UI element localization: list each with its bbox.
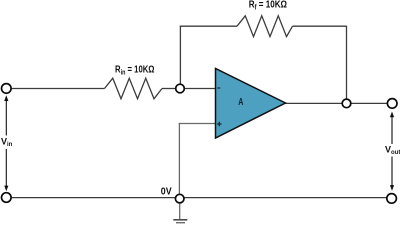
Vin arrowhead up: [4, 95, 8, 101]
terminal: Vin bottom: [2, 193, 12, 203]
wire: Rin to inverting node: [162, 88, 176, 90]
op-amp A triangle: [216, 68, 286, 138]
terminal: Vout bottom: [387, 194, 397, 204]
svg-text:A: A: [238, 96, 243, 108]
wire: non-inverting input vertical down to ground node: [178, 123, 180, 194]
wire: op-amp output to output node: [285, 102, 343, 104]
Vout arrowhead up: [390, 112, 394, 118]
wire: feedback top-left horizontal to Rf: [180, 25, 237, 27]
terminal: Vin top: [2, 84, 12, 94]
wire: feedback vertical left (node up): [179, 26, 181, 85]
terminal: Vout top: [387, 99, 397, 109]
svg-text:0V: 0V: [161, 187, 172, 198]
wire: feedback vertical right down to output node: [346, 26, 348, 99]
ground symbol bar 2: [176, 222, 185, 224]
wire: inverting node to op-amp minus input: [184, 88, 215, 90]
Vout arrowhead down: [390, 185, 394, 191]
ground symbol bar 1: [173, 219, 187, 221]
wire: bottom rail from Vin- terminal to Vout- terminal: [6, 197, 392, 199]
wire: Rf to top-right corner: [293, 25, 347, 27]
Vin measurement arrow lower shaft: [5, 149, 7, 187]
Vin arrowhead down: [4, 186, 8, 192]
wire: output node to Vout terminal: [351, 102, 388, 104]
op-amp minus pin mark: [217, 87, 220, 89]
Vout measurement arrow lower shaft: [391, 157, 393, 187]
resistor R_in zigzag: [105, 78, 163, 99]
wire: input from Vin terminal to Rin: [11, 88, 105, 90]
ground symbol stem: [179, 204, 181, 219]
Vin measurement arrow upper shaft: [5, 100, 7, 136]
wire: non-inverting input horizontal: [179, 123, 215, 125]
op-amp plus pin mark: [217, 122, 221, 126]
node: ground junction 0V: [175, 194, 184, 203]
node: inverting input junction: [176, 84, 185, 93]
Vout measurement arrow upper shaft: [391, 116, 393, 145]
resistor R_f zigzag: [237, 16, 293, 37]
node: output junction: [342, 99, 351, 108]
svg-text:Rf = 10KΩ: Rf = 10KΩ: [249, 0, 287, 11]
